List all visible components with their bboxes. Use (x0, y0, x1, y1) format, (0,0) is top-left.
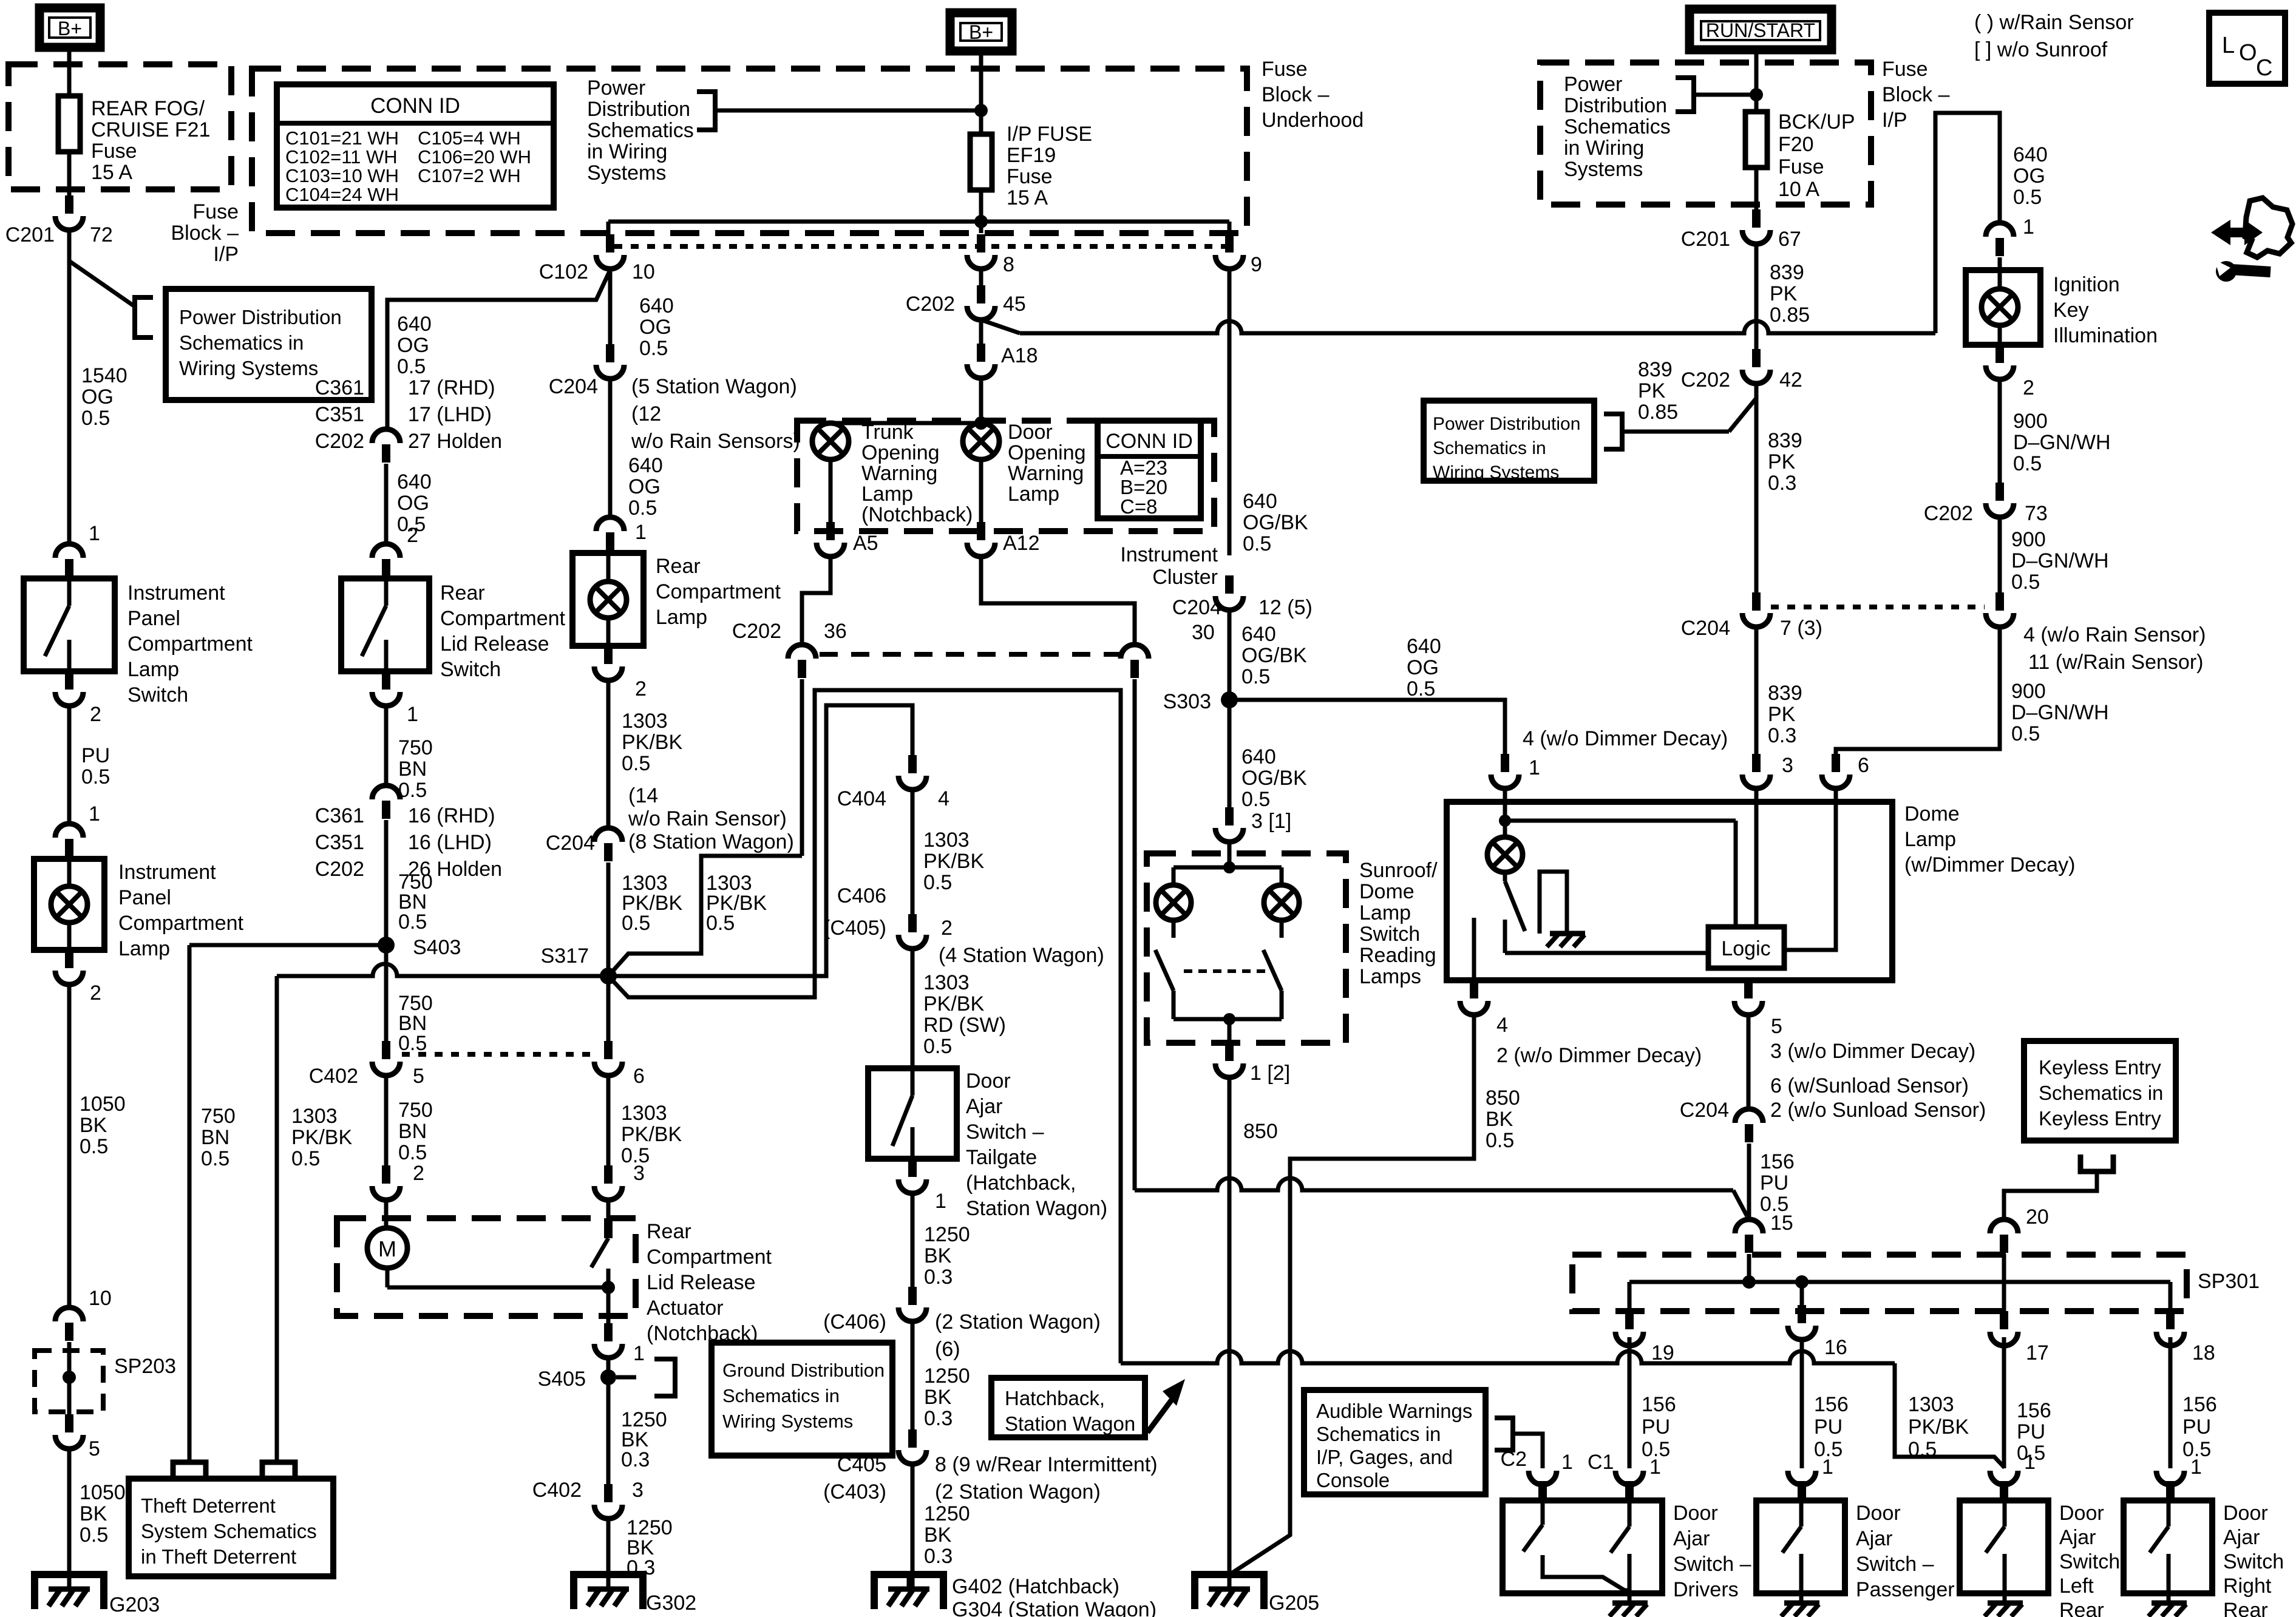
svg-text:8: 8 (1003, 253, 1014, 276)
connector C405 C403 (823, 1429, 1158, 1503)
svg-text:0.3: 0.3 (621, 1448, 650, 1471)
svg-text:5: 5 (413, 1065, 424, 1088)
wire 850 to G205 (1229, 1075, 1278, 1575)
label Power Distribution Schematics (underhood) (587, 76, 694, 185)
svg-text:640: 640 (397, 313, 432, 336)
svg-text:1: 1 (635, 521, 647, 544)
svg-text:0.5: 0.5 (80, 1524, 108, 1547)
svg-text:( ) w/Rain Sensor: ( ) w/Rain Sensor (1974, 11, 2134, 34)
wire junction to pin 9 (981, 222, 1229, 234)
connector dome pin 6 (1822, 754, 1869, 788)
svg-text:RD (SW): RD (SW) (923, 1014, 1006, 1037)
connector SP301 pin 15 (1735, 1219, 1763, 1253)
svg-text:CRUISE F21: CRUISE F21 (91, 118, 211, 141)
svg-text:Ajar: Ajar (966, 1095, 1002, 1118)
svg-text:A12: A12 (1003, 532, 1040, 555)
connector dome pin 1 (1491, 754, 1519, 788)
dome lamp bulb (1487, 821, 1523, 872)
connector sunroof pin 1 (1215, 1043, 1290, 1085)
svg-text:Rear: Rear (647, 1220, 691, 1243)
wire C202 45 diagonal to run feed (981, 320, 1020, 333)
label Fuse Block - IP (right) (1882, 58, 1950, 132)
terminal fork keyless (2080, 1154, 2113, 1171)
svg-text:Rear: Rear (2223, 1599, 2268, 1617)
svg-text:16 (LHD): 16 (LHD) (408, 831, 492, 854)
svg-text:Fuse: Fuse (91, 140, 137, 163)
callout arrow (1147, 1379, 1185, 1432)
svg-text:CONN ID: CONN ID (1106, 430, 1193, 453)
connector ignition pin 1 (1986, 223, 2014, 256)
splice pack SP301 bus (1629, 1275, 2170, 1311)
svg-text:Compartment: Compartment (127, 632, 253, 656)
fuse block I/P dashed box (left) (8, 64, 231, 189)
bracket power distribution underhood (697, 92, 715, 130)
svg-text:System Schematics: System Schematics (141, 1520, 317, 1542)
svg-text:2: 2 (90, 703, 101, 726)
svg-text:10 A: 10 A (1778, 178, 1819, 201)
svg-text:750: 750 (398, 736, 433, 759)
component Ignition Key Illumination (1966, 257, 2040, 345)
svg-text:C204: C204 (549, 375, 598, 398)
dome switch to logic (1505, 951, 1708, 955)
svg-text:Compartment: Compartment (647, 1246, 772, 1269)
svg-text:839: 839 (1770, 261, 1804, 284)
ground left rear switch (1985, 1593, 2023, 1616)
svg-text:15: 15 (1770, 1212, 1793, 1235)
component Door Ajar Switch Drivers (1503, 1500, 1662, 1593)
lamp Door Opening Warning (963, 421, 1086, 506)
svg-text:900: 900 (2013, 410, 2048, 433)
svg-text:Lamp: Lamp (656, 606, 707, 629)
wire B+ left feed (67, 46, 72, 96)
svg-text:C404: C404 (837, 787, 886, 810)
svg-text:Lamps: Lamps (1359, 965, 1421, 988)
svg-text:67: 67 (1778, 228, 1801, 251)
connector pin 1 rear compartment lamp (596, 517, 624, 551)
svg-text:12 (5): 12 (5) (1258, 596, 1313, 619)
svg-text:Keyless Entry: Keyless Entry (2039, 1056, 2161, 1079)
svg-text:PU: PU (81, 744, 110, 767)
svg-text:Illumination: Illumination (2053, 324, 2158, 347)
wire 900 DGN mid (2000, 515, 2109, 594)
svg-text:72: 72 (90, 223, 113, 246)
wire 1303 C404 to C406 (912, 787, 984, 914)
svg-text:Schematics in: Schematics in (1433, 438, 1546, 458)
dome internal feed (1499, 786, 1736, 927)
box Keyless Entry Schematics (2024, 1041, 2176, 1141)
splice S303 (1163, 690, 1238, 713)
labels C361 C351 C202 16 16 26 (315, 804, 502, 881)
svg-text:C102=11 WH: C102=11 WH (285, 146, 398, 168)
label Door Ajar Switch Left Rear (2059, 1502, 2120, 1617)
fuse BCK/UP F20 (1745, 110, 1855, 201)
svg-text:(12: (12 (631, 402, 661, 425)
svg-text:(8 Station Wagon): (8 Station Wagon) (628, 830, 794, 853)
legend rain sensor (1974, 11, 2134, 34)
wire 640 OGBK to S303 (1229, 608, 1307, 700)
svg-text:BK: BK (1486, 1108, 1513, 1131)
svg-text:0.5: 0.5 (397, 355, 426, 378)
wire S317 to A5 chain (608, 856, 802, 976)
svg-text:Switch: Switch (440, 658, 501, 681)
svg-text:Actuator: Actuator (647, 1297, 724, 1320)
svg-text:PK/BK: PK/BK (1908, 1415, 1969, 1439)
svg-text:6: 6 (633, 1065, 645, 1088)
svg-text:1303: 1303 (291, 1105, 338, 1128)
svg-text:(5 Station Wagon): (5 Station Wagon) (631, 375, 797, 398)
label Door Ajar Switch Passenger (1856, 1502, 1955, 1601)
svg-text:Switch: Switch (1359, 923, 1420, 946)
svg-text:0.5: 0.5 (1243, 532, 1271, 555)
connector tailgate pin 1 (898, 1159, 946, 1213)
svg-text:PU: PU (1642, 1415, 1670, 1439)
svg-text:A5: A5 (853, 532, 878, 555)
svg-text:CONN ID: CONN ID (370, 94, 460, 118)
svg-text:1303: 1303 (923, 829, 970, 852)
box Power Distribution Schematics (left) (166, 289, 372, 400)
svg-text:1 [2]: 1 [2] (1250, 1062, 1290, 1085)
svg-text:OG: OG (81, 385, 114, 408)
svg-text:Compartment: Compartment (440, 607, 566, 630)
svg-text:900: 900 (2011, 528, 2046, 551)
labels dome pin 5 (1770, 1015, 1986, 1122)
svg-text:G302: G302 (646, 1592, 696, 1615)
svg-text:Door: Door (1856, 1502, 1901, 1525)
svg-text:0.5: 0.5 (2013, 186, 2042, 209)
wire C202 36 down (800, 679, 804, 856)
svg-text:0.5: 0.5 (923, 1035, 952, 1058)
wire pin 9 down (1229, 266, 1308, 555)
svg-text:7 (3): 7 (3) (1780, 617, 1822, 640)
svg-text:17: 17 (2026, 1341, 2049, 1364)
connector SP301 pin 19 (1615, 1311, 1674, 1364)
connector pin 2 ip lamp (55, 950, 101, 1005)
svg-text:I/P, Gages, and: I/P, Gages, and (1316, 1446, 1453, 1468)
svg-text:D–GN/WH: D–GN/WH (2011, 549, 2109, 572)
svg-text:C202: C202 (1924, 502, 1973, 525)
svg-text:11 (w/Rain Sensor): 11 (w/Rain Sensor) (2028, 651, 2204, 674)
connector C406 hatch (823, 1287, 1101, 1361)
svg-text:REAR FOG/: REAR FOG/ (91, 97, 205, 120)
connector C402 pin 5 (309, 1041, 424, 1088)
wire 1250 BK tailgate 3 (912, 1462, 970, 1589)
svg-text:17 (RHD): 17 (RHD) (408, 376, 495, 399)
dotted instrument cluster lower (820, 652, 1119, 657)
labels dome pin 4/1 (1523, 727, 1728, 779)
wire C204 30 to SP301 15 (1135, 1178, 1747, 1216)
svg-text:Fuse: Fuse (1778, 155, 1824, 178)
svg-text:1: 1 (1649, 1456, 1661, 1479)
wire sunroof lamps top (1173, 839, 1282, 885)
svg-text:839: 839 (1638, 358, 1673, 381)
svg-text:1303: 1303 (621, 1102, 667, 1125)
svg-text:M: M (378, 1236, 396, 1261)
dome switch (1505, 872, 1525, 953)
label REAR FOG/CRUISE F21 (91, 97, 211, 184)
svg-text:0.5: 0.5 (706, 912, 735, 935)
svg-text:[ ] w/o Sunroof: [ ] w/o Sunroof (1974, 38, 2108, 61)
svg-text:(2 Station Wagon): (2 Station Wagon) (935, 1310, 1101, 1334)
wire S317 to C404 (608, 705, 912, 976)
svg-text:839: 839 (1768, 682, 1802, 705)
svg-text:C103=10 WH: C103=10 WH (285, 165, 399, 186)
bracket power distribution right (1676, 78, 1694, 112)
svg-text:156: 156 (1760, 1150, 1795, 1173)
svg-text:in Wiring: in Wiring (1564, 137, 1644, 160)
wire 640 OG below C102 (610, 266, 674, 360)
svg-text:PK/BK: PK/BK (622, 731, 682, 754)
connector passenger pin 1 (1788, 1471, 1816, 1499)
svg-text:1: 1 (407, 703, 418, 726)
svg-text:OG/BK: OG/BK (1241, 767, 1307, 790)
component Instrument Panel Compartment Lamp Switch (24, 578, 115, 671)
svg-text:1: 1 (2190, 1456, 2202, 1479)
bracket to power distribution schematics (135, 297, 153, 337)
wire 750 BN to S403 (386, 820, 433, 945)
ground G203 (35, 1575, 160, 1616)
wire 839 PK 0.85 (1756, 242, 1810, 349)
svg-text:640: 640 (1241, 623, 1276, 646)
ground drivers switch (1609, 1593, 1648, 1616)
svg-text:SP301: SP301 (2198, 1270, 2260, 1293)
svg-text:C=8: C=8 (1120, 495, 1157, 518)
box Theft Deterrent System Schematics (129, 1479, 333, 1576)
wire F20 to C201 (1754, 168, 1759, 209)
svg-text:156: 156 (1642, 1393, 1676, 1416)
connector C204 station wagon (549, 344, 624, 398)
svg-text:Door: Door (2223, 1502, 2268, 1525)
svg-text:(Hatchback,: (Hatchback, (966, 1171, 1076, 1195)
wire 839 PK 0.3 upper (1756, 381, 1802, 592)
svg-text:0.5: 0.5 (398, 910, 427, 934)
svg-text:3 (w/o Dimmer Decay): 3 (w/o Dimmer Decay) (1770, 1040, 1975, 1063)
labels C204 station wagon pins (631, 375, 800, 453)
connector C102 pin 10 (539, 234, 655, 283)
svg-text:D–GN/WH: D–GN/WH (2011, 701, 2109, 724)
svg-text:0.85: 0.85 (1638, 401, 1678, 424)
svg-text:in Wiring: in Wiring (587, 140, 667, 163)
svg-text:1303: 1303 (923, 971, 970, 994)
labels C361 C351 C202 17 17 27 (315, 376, 502, 453)
connector C204 pin 12 (1172, 575, 1313, 619)
svg-text:0.5: 0.5 (1486, 1129, 1514, 1152)
svg-text:F20: F20 (1778, 133, 1814, 156)
svg-text:1: 1 (2024, 1451, 2036, 1474)
wire C102 branch left (387, 270, 610, 429)
wire 750 BN upper (386, 703, 433, 802)
svg-text:839: 839 (1768, 429, 1802, 452)
connector C202 pin 36 (732, 620, 847, 678)
wire 156 PU to SP301 (1749, 1144, 1795, 1219)
wire B+ to fuse EF19 (974, 51, 988, 134)
wire C202 45 to A18 (979, 317, 983, 344)
connector pin 1 lamp switch (55, 544, 83, 577)
wire 1250 BK to G302 (608, 1516, 673, 1589)
dotted C204 row (1771, 605, 1985, 609)
wire S303 to dome pin1 (1229, 635, 1505, 754)
svg-text:0.3: 0.3 (924, 1407, 953, 1430)
connector pin 1 ip lamp (55, 824, 83, 857)
wire A12 to C204 30 (981, 554, 1135, 645)
svg-text:C: C (2256, 55, 2272, 81)
svg-text:PK: PK (1768, 703, 1796, 726)
svg-text:w/o Rain Sensors): w/o Rain Sensors) (631, 430, 800, 453)
label SP301 pin 20 (2026, 1205, 2049, 1229)
svg-text:0.5: 0.5 (80, 1135, 108, 1158)
fuse block underhood dashed box (252, 69, 1247, 233)
svg-text:C361: C361 (315, 804, 364, 827)
svg-text:Rear: Rear (2059, 1599, 2104, 1617)
ground passenger switch (1781, 1593, 1819, 1616)
wire 1303 to C204 (608, 678, 682, 828)
svg-text:B+: B+ (58, 18, 82, 39)
svg-text:Warning: Warning (861, 462, 937, 485)
component Instrument Panel Compartment Lamp (34, 859, 104, 950)
svg-text:640: 640 (1241, 745, 1276, 768)
svg-text:Key: Key (2053, 299, 2089, 322)
svg-text:C202: C202 (315, 858, 364, 881)
svg-text:Ajar: Ajar (2059, 1526, 2096, 1549)
svg-text:Block –: Block – (171, 222, 239, 245)
connector C404 pin 4 (837, 755, 949, 810)
svg-text:0.3: 0.3 (924, 1545, 953, 1568)
svg-text:1250: 1250 (924, 1364, 970, 1388)
label Fuse Block - I/P (left) (171, 200, 239, 266)
connector pin 2 lid release switch (372, 544, 400, 577)
connector C202 pin 42 (1681, 349, 1802, 392)
label ignition pin 1 (2023, 215, 2034, 239)
connector C204 rear lamp (546, 828, 622, 861)
svg-text:C2: C2 (1501, 1448, 1527, 1471)
switch drivers left half (1523, 1500, 1629, 1590)
svg-text:Lamp: Lamp (118, 937, 170, 960)
svg-text:PK/BK: PK/BK (923, 992, 984, 1015)
svg-text:640: 640 (639, 294, 674, 317)
connector right rear pin 1 (2156, 1471, 2184, 1499)
svg-text:(6): (6) (935, 1338, 960, 1361)
svg-text:900: 900 (2011, 680, 2046, 703)
svg-text:C204: C204 (1680, 1099, 1729, 1122)
label sunroof pin 3 (1251, 810, 1291, 833)
power feed B+ (top middle) (950, 13, 1012, 51)
labels dome pin 4 (1496, 1014, 1702, 1067)
connector fuse block pin 8 (967, 234, 1014, 276)
svg-text:S303: S303 (1163, 690, 1211, 713)
label Fuse Block - Underhood (1262, 58, 1364, 132)
dotted instrument cluster top (614, 244, 1234, 249)
svg-text:27 Holden: 27 Holden (408, 430, 502, 453)
label Instrument Panel Compartment Lamp (118, 861, 244, 960)
splice S403 (378, 936, 461, 959)
wire sunroof lamps bottom (1173, 1013, 1282, 1043)
svg-text:4 (w/o Rain Sensor): 4 (w/o Rain Sensor) (2023, 623, 2206, 646)
label Rear Compartment Lid Release Actuator (647, 1220, 772, 1345)
label Rear Compartment Lid Release Switch (440, 581, 566, 681)
wire 1540 OG (69, 230, 127, 544)
svg-text:G205: G205 (1269, 1592, 1319, 1615)
svg-text:Cluster: Cluster (1152, 566, 1218, 589)
wire 839 PK 0.3 lower (1756, 625, 1802, 754)
svg-text:1: 1 (935, 1190, 946, 1213)
wire S317 down to C402 6 (606, 976, 611, 1041)
connector C204 pin 30 (1121, 621, 1215, 678)
svg-text:Schematics in: Schematics in (2039, 1082, 2163, 1104)
svg-text:2: 2 (90, 981, 101, 1005)
svg-text:C202: C202 (732, 620, 781, 643)
connector C1 pin 1 (1529, 1451, 1614, 1499)
svg-text:S403: S403 (413, 936, 461, 959)
connector pin 2 lamp switch (55, 671, 101, 726)
svg-text:36: 36 (824, 620, 847, 643)
svg-text:Hatchback,: Hatchback, (1005, 1387, 1105, 1409)
svg-text:1: 1 (2023, 215, 2034, 239)
connector C361/C351/C202 pins 16/16/26 (372, 785, 400, 819)
connector C204 pin 7 (1681, 592, 1822, 640)
component Door Ajar Switch Right Rear (2124, 1500, 2212, 1593)
wire dome 5 to C204 (1747, 1012, 1751, 1109)
connector C204 dome (1680, 1099, 1763, 1142)
svg-text:0.5: 0.5 (628, 497, 657, 520)
wire actuator internal (387, 1281, 615, 1294)
svg-text:2: 2 (407, 524, 418, 547)
connector C361/C351/C202 pins 17/17/27 (372, 429, 400, 463)
wire 850 BK (1232, 1012, 1520, 1573)
svg-text:(C406): (C406) (823, 1310, 886, 1334)
svg-text:0.5: 0.5 (81, 407, 110, 430)
svg-text:C202: C202 (315, 430, 364, 453)
svg-text:18: 18 (2192, 1341, 2215, 1364)
svg-text:15 A: 15 A (91, 161, 132, 184)
svg-text:G402 (Hatchback): G402 (Hatchback) (952, 1575, 1119, 1598)
connector ignition pin 2 (1986, 345, 2034, 399)
svg-text:C204: C204 (1681, 617, 1730, 640)
svg-text:42: 42 (1779, 368, 1802, 392)
svg-text:(4 Station Wagon): (4 Station Wagon) (939, 944, 1104, 967)
svg-text:Wiring Systems: Wiring Systems (722, 1411, 853, 1432)
dome pin4 wire internal (1472, 918, 1476, 980)
power feed RUN/START (1690, 9, 1832, 50)
svg-text:5: 5 (89, 1437, 100, 1460)
svg-text:I/P: I/P (1882, 109, 1907, 132)
svg-text:Theft Deterrent: Theft Deterrent (141, 1494, 276, 1517)
connector C202 pin 73 (1924, 483, 2048, 525)
label pin 2 lid release switch (407, 524, 418, 547)
label Instrument Cluster (1120, 543, 1218, 589)
splice SP203 (35, 1342, 176, 1414)
svg-text:(Notchback): (Notchback) (861, 503, 973, 526)
svg-text:Fuse: Fuse (192, 200, 239, 223)
dome dimmer chassis (1547, 934, 1585, 947)
svg-text:Lid Release: Lid Release (647, 1271, 756, 1294)
svg-text:PK/BK: PK/BK (291, 1126, 352, 1149)
svg-text:850: 850 (1243, 1120, 1278, 1143)
svg-text:BCK/UP: BCK/UP (1778, 110, 1855, 134)
svg-text:BK: BK (80, 1114, 107, 1137)
ground G205 (1195, 1575, 1319, 1615)
svg-text:Door: Door (1008, 421, 1053, 444)
svg-text:C402: C402 (309, 1065, 358, 1088)
svg-text:0.5: 0.5 (2011, 571, 2040, 594)
svg-text:Distribution: Distribution (1564, 94, 1667, 117)
svg-text:Right: Right (2223, 1575, 2272, 1598)
svg-text:4 (w/o Dimmer Decay): 4 (w/o Dimmer Decay) (1523, 727, 1728, 750)
box Ground Distribution Schematics (712, 1343, 892, 1456)
component Rear Compartment Lamp (572, 553, 644, 646)
wire 1050 BK lower (69, 1449, 126, 1589)
svg-text:Switch –: Switch – (966, 1120, 1044, 1144)
svg-text:1303: 1303 (622, 710, 668, 733)
svg-text:0.3: 0.3 (924, 1266, 953, 1289)
